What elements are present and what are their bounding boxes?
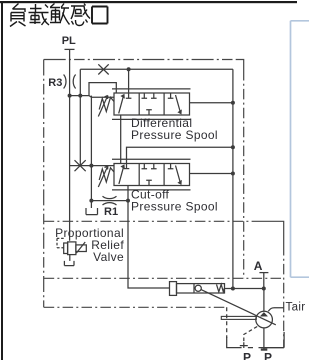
valve body [64,243,68,254]
port A tick [259,272,268,274]
Tair leader [268,308,283,312]
svg-text:P: P [243,351,251,360]
wire x91 drop [90,96,92,201]
bypass loop wire [89,83,116,96]
title char 载 [29,4,50,25]
node J1 [68,94,72,98]
title char 口 [92,7,108,24]
solenoid arrow [76,242,85,253]
spring S2 [99,168,114,182]
left cell arrow [119,96,124,114]
pump P1 [256,289,273,350]
tank T2 [64,261,74,266]
drain tick [261,349,268,351]
orifice R3 [64,75,76,89]
swashplate rod [221,316,256,319]
page left rule [1,1,3,360]
pump enclosure top-right corner [256,221,284,245]
boundary right (controller) [236,60,244,71]
svg-text:Tair: Tair [286,302,306,314]
title char 感 [71,4,90,26]
middle cell blocked ports [142,164,157,186]
svg-text:R1: R1 [104,206,118,218]
middle cell blocked ports [142,93,157,115]
spring S1 [99,97,114,111]
pivot [195,285,201,291]
boundary top [44,59,236,61]
left cell arrow [119,166,124,184]
wire port A [263,273,265,289]
boundary mid horizontal [44,220,256,222]
page top rule [0,1,297,3]
left cell blocked port [124,168,130,170]
rails [112,89,191,120]
wire cutoff second top port to bus [127,147,233,168]
svg-text:Pressure Spool: Pressure Spool [131,128,218,142]
blue table cell border [291,21,310,277]
rails [112,159,191,190]
node J8 [126,199,130,203]
spring adjust arrow [98,96,108,117]
wire x80 to plug [79,96,81,166]
wire y70 horizontal to bus [80,68,233,70]
wire DP right port to bus [190,102,233,104]
solenoid box [76,245,86,252]
valve drain wire [69,255,71,261]
right cell arrow [176,166,181,183]
enclosure dash-dot boundary [44,60,284,348]
cut-off pressure spool valve U2 [112,159,191,190]
differential pressure spool valve U1 [112,89,191,120]
node J6 [89,164,93,168]
svg-text:R3: R3 [48,77,62,89]
svg-text:Valve: Valve [93,250,124,264]
svg-text:Pressure Spool: Pressure Spool [131,200,218,214]
bus vertical wire [232,69,234,288]
plug X2 [75,160,86,171]
left cell blocked port [126,93,132,98]
bottom wire [226,307,228,338]
wire x80 drop [79,69,81,95]
node J9 [89,199,93,203]
piston [193,284,195,293]
svg-text:A: A [254,259,263,273]
wire DP bottom to cutoff top [120,115,122,164]
proportional relief valve V1 [57,238,86,265]
pilot wire y166 [70,165,114,167]
wire cutoff right port to bus [190,173,233,175]
svg-text:P: P [264,351,272,360]
cap [170,282,177,296]
plug X1 [98,64,108,74]
right cell blocked port [168,164,174,169]
right cell blocked port [168,93,174,98]
wire R1 horizontal [91,200,128,202]
node J4 [231,101,235,105]
spring adjust arrow [98,166,108,187]
wire y95 horizontal [70,96,114,98]
barrel [177,284,225,293]
wire DP top port [128,69,130,93]
node J3 [127,67,131,71]
servo cylinder C1 [170,282,225,296]
wire cylinder right [225,288,264,290]
spring [217,284,225,291]
wire cutoff bottom port down [128,186,170,289]
title 负载敏感口 (drawn as paths) [10,4,108,27]
svg-text:PL: PL [62,35,76,47]
orifice R1 [103,196,117,205]
boundary lower horizontal [44,277,284,279]
title char 负 [10,4,26,27]
node J10 [231,287,235,291]
boundary left [43,60,45,308]
pump enclosure right [283,245,285,348]
bottom right corner wire [264,332,284,348]
drain end tick [240,342,248,348]
PL line [69,49,71,240]
boundary bottom [44,306,227,308]
pump case drain dashed [244,327,257,343]
node J2 [78,94,82,98]
node J11 [262,287,266,291]
PL port tick [65,48,75,50]
tank T1 [86,201,98,215]
node J5 [231,145,235,149]
right cell arrow [176,95,181,112]
valve body [114,93,190,115]
feedback link [201,289,276,325]
node J7 [231,172,235,176]
pilot dashes [57,238,64,247]
valve body [114,164,190,186]
title char 敏 [50,4,70,25]
